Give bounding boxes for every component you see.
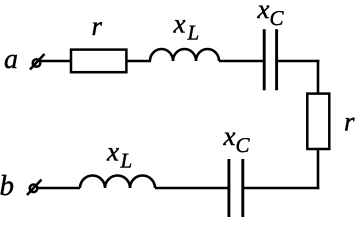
- svg-text:b: b: [0, 170, 14, 202]
- svg-text:a: a: [4, 44, 18, 75]
- wire corner down to resistor r (right): [317, 60, 320, 93]
- svg-text:r: r: [92, 11, 103, 41]
- resistor r (right): [307, 94, 329, 149]
- resistor r (top): [71, 50, 126, 73]
- wire resistor r (right) to bottom rail: [317, 150, 320, 190]
- inductor xL (bottom): [80, 176, 155, 189]
- capacitor xC (top): [264, 29, 276, 90]
- wire capacitor (bottom) to right rail: [244, 187, 320, 190]
- wire inductor to capacitor (bottom): [155, 187, 229, 190]
- capacitor xC (bottom): [229, 159, 243, 217]
- wire capacitor to corner: [278, 60, 320, 63]
- terminal a: [30, 54, 45, 70]
- terminal b: [27, 180, 42, 196]
- inductor xL (top): [150, 49, 219, 61]
- wire resistor to inductor: [126, 60, 151, 63]
- wire a to resistor: [41, 60, 71, 63]
- wire b to inductor: [38, 187, 81, 190]
- svg-text:r: r: [344, 107, 355, 137]
- wire inductor to capacitor: [219, 60, 263, 63]
